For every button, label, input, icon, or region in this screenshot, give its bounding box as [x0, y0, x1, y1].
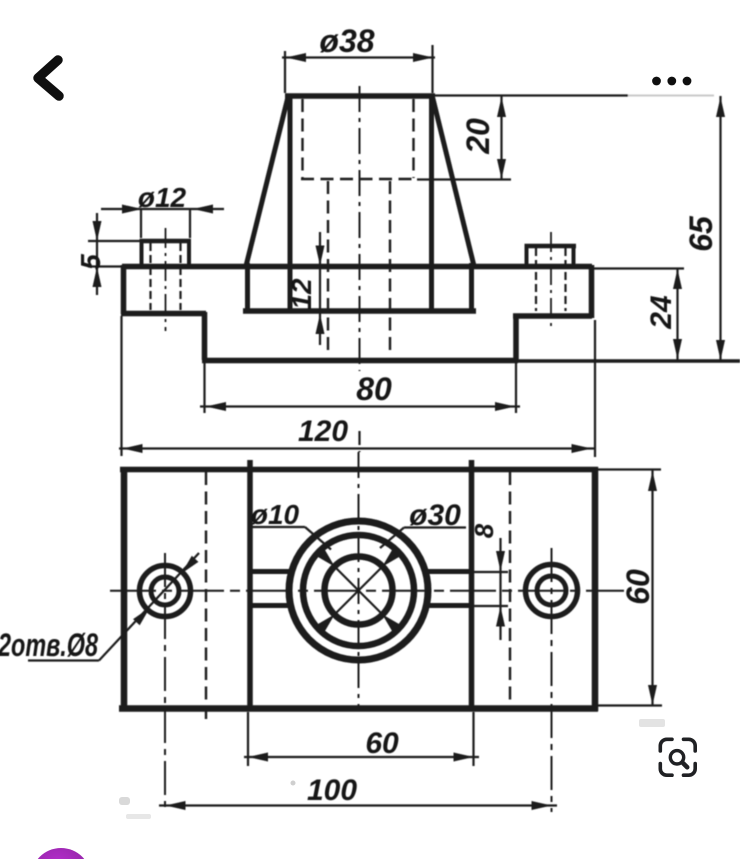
svg-text:100: 100	[307, 774, 357, 807]
svg-text:20: 20	[460, 118, 496, 155]
svg-text:5: 5	[75, 254, 106, 270]
svg-text:12: 12	[286, 278, 317, 310]
svg-text:65: 65	[683, 215, 719, 252]
svg-text:ø12: ø12	[138, 182, 187, 213]
svg-text:8: 8	[469, 523, 499, 538]
svg-text:80: 80	[356, 371, 392, 407]
svg-text:ø10: ø10	[251, 499, 300, 530]
svg-text:ø38: ø38	[319, 23, 374, 59]
svg-text:24: 24	[645, 295, 678, 330]
svg-text:120: 120	[298, 415, 348, 448]
svg-text:60: 60	[365, 727, 399, 760]
svg-text:2отв.Ø8: 2отв.Ø8	[0, 627, 98, 663]
svg-text:60: 60	[620, 569, 656, 605]
svg-text:ø30: ø30	[409, 499, 461, 532]
